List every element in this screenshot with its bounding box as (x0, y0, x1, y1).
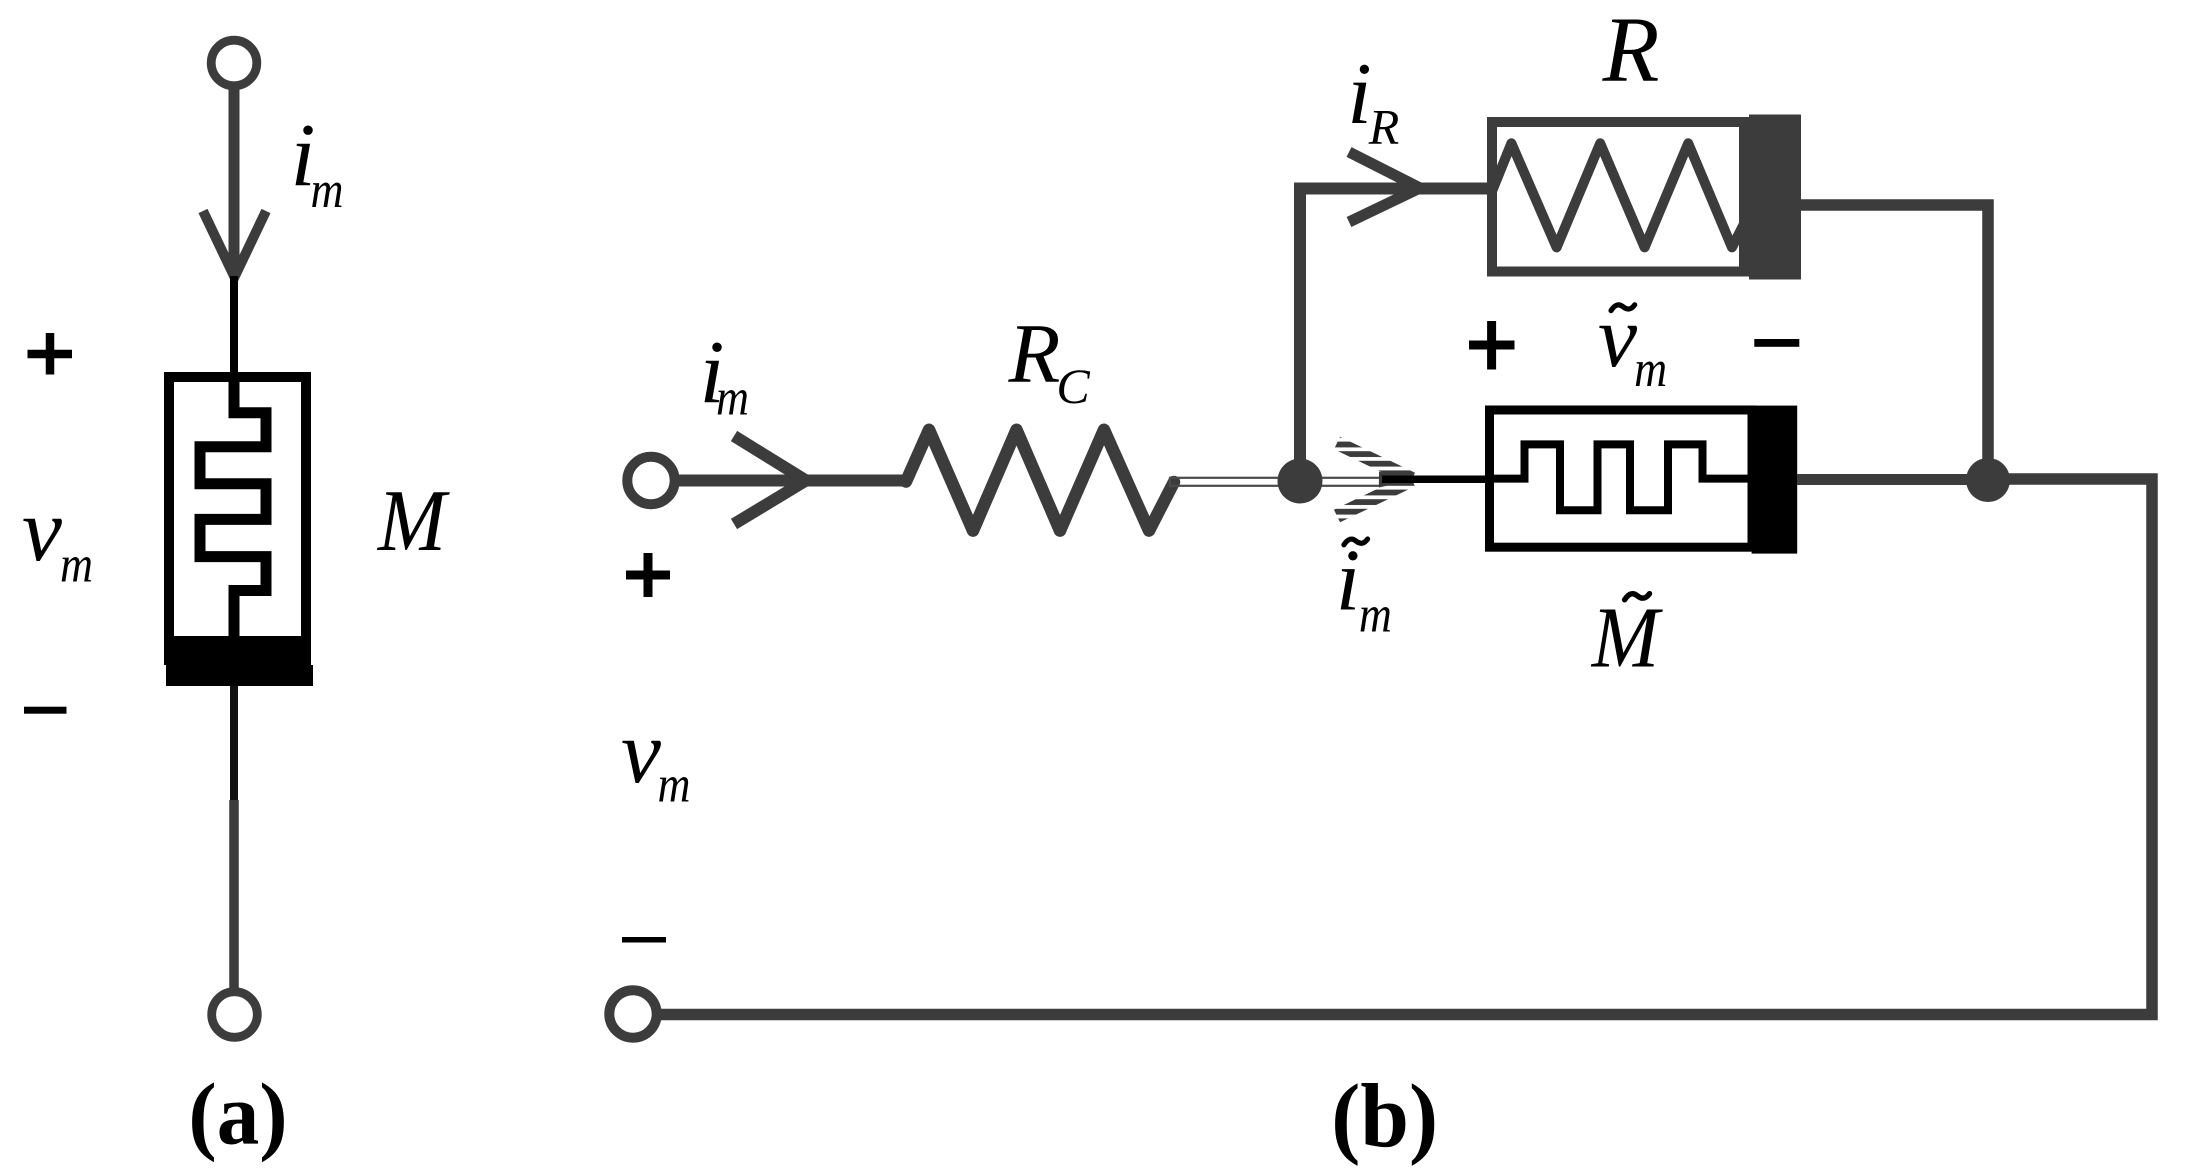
svg-text:v: v (621, 703, 661, 802)
current arrow i_R (1349, 152, 1420, 222)
resistor R zigzag (1493, 143, 1751, 247)
svg-text:m: m (310, 160, 343, 218)
memristor M-tilde meander (1494, 444, 1752, 510)
terminal circle input (b) (627, 457, 674, 504)
svg-text:M: M (377, 472, 450, 569)
resistor R box (1492, 122, 1744, 272)
wire input terminal to R_C (b) (675, 475, 910, 487)
terminal circle bottom (b) (609, 990, 656, 1037)
current arrow i_m (a) (203, 211, 266, 277)
terminal circle bottom (a) (212, 992, 258, 1038)
wire top terminal to arrow (a) (229, 87, 240, 276)
svg-text:m: m (1634, 339, 1667, 397)
svg-text:(a): (a) (188, 1065, 287, 1163)
memristor M-tilde electrode bar (1752, 406, 1798, 554)
svg-text:C: C (1056, 358, 1090, 414)
plus sign (b) (626, 571, 670, 580)
wire memristor to bottom terminal (a) (230, 686, 238, 800)
plus sign (tilde v_m) (1469, 341, 1515, 350)
memristor M meander (a) (200, 377, 266, 640)
terminal circle top (a) (211, 40, 257, 86)
wire node up to R branch (1300, 189, 1489, 482)
svg-text:m: m (1359, 585, 1392, 643)
plus sign (a) (28, 350, 73, 359)
svg-text:R: R (1368, 99, 1400, 155)
minus sign (b) (622, 937, 666, 943)
svg-text:i: i (1336, 533, 1360, 630)
memristor M-tilde box (1490, 410, 1753, 547)
hatched current arrow tilde-i_m (1337, 443, 1412, 479)
memristor M box (a) (169, 377, 306, 660)
svg-text:(b): (b) (1331, 1067, 1438, 1167)
wire arrow to memristor box (a) (230, 276, 238, 376)
svg-text:M: M (1591, 590, 1663, 686)
svg-text:m: m (657, 755, 690, 813)
resistor R electrode bar (1749, 115, 1801, 280)
svg-text:m: m (60, 535, 93, 593)
resistor R_C zigzag (906, 430, 1174, 531)
memristor M bottom electrode bar (a) (164, 636, 308, 665)
node dot (left) (1278, 459, 1323, 504)
minus sign (tilde v_m) (1754, 339, 1799, 347)
wire memristor to junction (1797, 474, 1988, 485)
svg-text:v: v (22, 481, 62, 580)
thin outlined wire R_C to node (1170, 478, 1380, 486)
svg-text:R: R (1602, 0, 1660, 102)
wire R to right corner (1801, 205, 1988, 459)
wire junction to right corner and bottom return (659, 479, 2152, 1015)
wire node to memristor box (black) (1382, 476, 1494, 484)
junction dot (right) (1966, 458, 2010, 502)
current arrow i_m (b) (734, 436, 806, 524)
minus sign (a) (24, 707, 67, 714)
svg-text:R: R (1008, 307, 1061, 401)
svg-text:m: m (716, 368, 749, 426)
